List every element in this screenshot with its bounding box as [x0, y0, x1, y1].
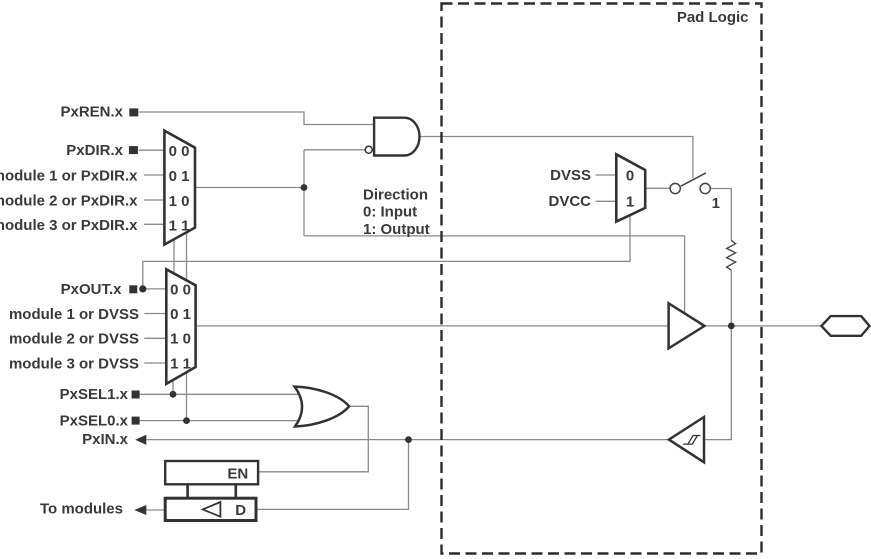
latch EN to D connector legs	[188, 484, 236, 498]
wire Direction to output buffer enable	[304, 236, 685, 313]
svg-text:0: 0	[626, 167, 634, 184]
wire To modules from latch	[146, 509, 165, 511]
wire module 1 or PxDIR.x stub	[144, 174, 165, 176]
wire module 1 or DVSS stub	[144, 313, 166, 315]
junction node PxSEL0	[183, 417, 190, 424]
svg-text:1 0: 1 0	[170, 331, 191, 348]
terminal square PxSEL0.x	[132, 417, 140, 425]
svg-text:0: Input: 0: Input	[363, 204, 417, 221]
wire PxIN.x line from Schmitt trigger	[147, 439, 669, 441]
latch EN block	[165, 461, 258, 484]
svg-text:1 0: 1 0	[169, 193, 190, 210]
svg-text:module 3 or DVSS: module 3 or DVSS	[9, 355, 139, 372]
wire PxDIR.x stub to mux U1	[139, 149, 166, 151]
wire switch to resistor R1	[710, 189, 731, 241]
svg-text:0 0: 0 0	[169, 143, 190, 160]
wire select lines mux U2 to PxSEL nets	[173, 373, 187, 421]
svg-text:module 2 or DVSS: module 2 or DVSS	[9, 331, 139, 348]
svg-text:0 0: 0 0	[170, 281, 191, 298]
wire latch D input tap from PxIN line	[256, 440, 409, 510]
wire module 2 or PxDIR.x stub	[144, 199, 165, 201]
wire PxOUT.x stub to mux U2	[139, 288, 166, 290]
NAND input bubble	[365, 146, 372, 153]
terminal square PxSEL1.x	[132, 391, 140, 399]
Schmitt trigger U7 (input buffer)	[669, 417, 704, 462]
wire mux U2 output to output buffer	[196, 325, 669, 327]
wire NAND output to switch control	[420, 137, 693, 179]
latch clock triangle	[203, 502, 221, 517]
wire PxREN.x to NAND input	[139, 112, 374, 125]
pad P1 (I/O pin hexagon)	[821, 316, 869, 336]
junction node PxOUT	[139, 285, 146, 292]
NAND gate U4 (AND with inverted input)	[374, 118, 419, 156]
Schmitt hysteresis symbol	[683, 436, 700, 445]
svg-text:PxDIR.x: PxDIR.x	[66, 142, 123, 159]
svg-text:0 1: 0 1	[170, 306, 191, 323]
svg-text:Direction: Direction	[363, 186, 428, 203]
junction node pad	[728, 323, 735, 330]
svg-text:PxREN.x: PxREN.x	[60, 104, 123, 121]
terminal square PxREN.x	[129, 108, 138, 116]
wire PxSEL1.x to OR gate	[140, 393, 299, 395]
svg-text:DVSS: DVSS	[550, 167, 591, 184]
junction node PxSEL1	[170, 391, 177, 398]
svg-text:1: 1	[626, 194, 634, 211]
Pad Logic dashed boundary	[442, 4, 762, 554]
svg-text:PxOUT.x: PxOUT.x	[61, 281, 123, 298]
mux U2 (PxOUT select)	[166, 269, 195, 384]
svg-text:module 3 or PxDIR.x: module 3 or PxDIR.x	[0, 217, 138, 234]
switch S1 right contact	[700, 183, 710, 193]
svg-text:1: Output: 1: Output	[363, 221, 430, 238]
wire mux U3 output to switch	[645, 187, 670, 189]
OR gate U5 (PxSEL)	[295, 387, 350, 427]
latch D block	[165, 498, 256, 520]
wire DVCC stub	[596, 200, 617, 202]
svg-text:1 1: 1 1	[169, 217, 190, 234]
wire module 2 or DVSS stub	[144, 337, 166, 339]
mux U3 (pull resistor DVSS/DVCC)	[616, 154, 645, 221]
svg-text:EN: EN	[227, 466, 248, 483]
svg-text:DVCC: DVCC	[548, 193, 591, 210]
wire Direction to NAND inverted input	[304, 149, 365, 151]
arrow head To modules	[134, 505, 146, 515]
svg-text:D: D	[235, 502, 246, 519]
wire Direction vertical branch	[303, 150, 305, 236]
switch S1 left contact	[670, 183, 680, 193]
arrow head PxIN.x	[135, 435, 146, 445]
svg-text:PxSEL1.x: PxSEL1.x	[60, 386, 129, 403]
svg-text:PxSEL0.x: PxSEL0.x	[60, 412, 129, 429]
terminal square PxDIR.x	[129, 146, 138, 154]
svg-text:module 2 or PxDIR.x: module 2 or PxDIR.x	[0, 192, 138, 209]
svg-text:0 1: 0 1	[169, 168, 190, 185]
svg-text:module 1 or PxDIR.x: module 1 or PxDIR.x	[0, 168, 138, 185]
svg-text:To modules: To modules	[40, 501, 123, 518]
mux U1 (PxDIR select)	[164, 131, 195, 245]
wire pad node to Schmitt trigger input	[704, 326, 731, 440]
wire mux U1 output (Direction node)	[195, 187, 304, 189]
svg-text:1: 1	[712, 195, 720, 212]
svg-text:module 1 or DVSS: module 1 or DVSS	[9, 306, 139, 323]
wire select lines between mux U1 and mux U2	[174, 232, 187, 280]
junction node Direction	[301, 184, 308, 191]
junction node PxIN tap	[405, 436, 412, 443]
wire resistor R1 to pad node	[730, 270, 732, 326]
switch S1 blade	[681, 173, 706, 186]
wire OR output to latch EN	[258, 406, 368, 472]
wire PxOUT.x to pull mux U3 select	[143, 215, 630, 289]
wire module 3 or DVSS stub	[144, 362, 166, 364]
svg-text:1 1: 1 1	[170, 355, 191, 372]
svg-text:PxIN.x: PxIN.x	[82, 431, 129, 448]
resistor R1 (pull-up/pull-down)	[727, 240, 736, 270]
wire module 3 or PxDIR.x stub	[144, 223, 165, 225]
wire DVSS stub	[596, 174, 617, 176]
wire PxSEL0.x to OR gate	[140, 420, 299, 422]
output buffer U6	[669, 303, 705, 348]
terminal square PxOUT.x	[129, 285, 137, 293]
wire output buffer to pad	[705, 325, 823, 327]
svg-text:Pad Logic: Pad Logic	[677, 9, 749, 26]
